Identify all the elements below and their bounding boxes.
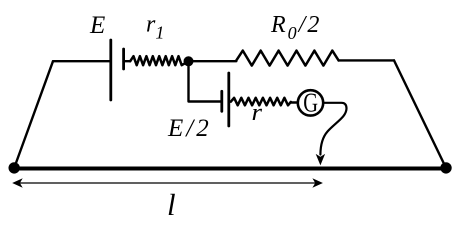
svg-text:E: E bbox=[89, 12, 105, 39]
jockey arrow (contact on slide wire) bbox=[316, 154, 325, 166]
wire: R0/2 to top-right corner bbox=[339, 59, 394, 61]
svg-text:G: G bbox=[303, 88, 318, 118]
wire: junction down to middle branch bbox=[189, 61, 222, 101]
resistor r bbox=[231, 98, 291, 106]
slide wire (thick potentiometer wire) bbox=[14, 167, 446, 171]
battery E bbox=[111, 40, 124, 100]
svg-text:r1: r1 bbox=[146, 12, 164, 43]
dimension arrow l (double-headed) bbox=[12, 178, 323, 188]
svg-text:r: r bbox=[252, 100, 263, 126]
wire: top segment from corner to battery E bbox=[53, 60, 110, 62]
node: right end of slide wire (dot) bbox=[440, 162, 451, 173]
battery E/2 bbox=[222, 73, 229, 126]
svg-text:E/2: E/2 bbox=[167, 115, 212, 142]
galvanometer G bbox=[298, 90, 323, 115]
wire: junction to resistor R0/2 bbox=[189, 60, 237, 62]
wire: left diagonal from top-left corner to left node bbox=[14, 61, 53, 168]
resistor R1 (r1) bbox=[130, 56, 188, 65]
wire: right diagonal from top-right corner to right node bbox=[394, 60, 446, 167]
wire: resistor r to galvanometer bbox=[291, 101, 297, 103]
wire: galvanometer to jockey (curved) bbox=[320, 103, 346, 155]
node: left end of slide wire (dot) bbox=[9, 162, 20, 173]
svg-text:R0/2: R0/2 bbox=[270, 12, 321, 43]
resistor R0/2 bbox=[236, 51, 338, 66]
wire: battery E to resistor r1 bbox=[124, 60, 131, 62]
svg-text:l: l bbox=[167, 187, 176, 222]
junction node (dot) bbox=[184, 56, 194, 66]
